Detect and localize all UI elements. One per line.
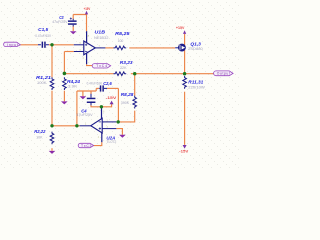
svg-text:C2,6: C2,6 (103, 81, 112, 86)
svg-text:TL072: TL072 (106, 140, 116, 144)
svg-text:100: 100 (118, 39, 124, 43)
svg-text:100K: 100K (37, 81, 47, 85)
svg-text:U1B: U1B (95, 30, 106, 35)
svg-text:C1,5: C1,5 (38, 27, 48, 32)
svg-text:R8,28: R8,28 (121, 92, 134, 97)
svg-text:0.47uF/63V: 0.47uF/63V (35, 34, 51, 38)
svg-text:220/10W: 220/10W (188, 85, 205, 89)
svg-text:TxC3: TxC3 (81, 144, 92, 148)
svg-text:-15V: -15V (179, 150, 189, 154)
svg-text:TxC4: TxC4 (96, 64, 107, 68)
svg-text:22K: 22K (120, 66, 127, 70)
svg-text:+15V: +15V (84, 7, 91, 11)
svg-text:+15V: +15V (176, 26, 185, 30)
svg-text:Output: Output (217, 72, 230, 76)
svg-text:3.9K: 3.9K (68, 84, 78, 88)
svg-text:2SD880: 2SD880 (188, 47, 203, 51)
svg-text:R5,25: R5,25 (115, 31, 130, 36)
svg-text:NE5532: NE5532 (94, 36, 109, 40)
svg-text:R4,24: R4,24 (67, 79, 81, 84)
svg-text:Q1,3: Q1,3 (190, 41, 201, 46)
svg-text:47uF/25V: 47uF/25V (52, 20, 68, 24)
svg-text:R1,21: R1,21 (36, 75, 52, 80)
svg-text:Input: Input (7, 43, 18, 47)
svg-text:R11,31: R11,31 (188, 79, 204, 84)
svg-text:390K: 390K (121, 101, 130, 105)
svg-text:R2,22: R2,22 (34, 129, 46, 134)
svg-text:10K: 10K (36, 135, 43, 139)
svg-text:0.47uF/63V: 0.47uF/63V (87, 81, 103, 85)
svg-text:-15V: -15V (106, 96, 118, 100)
svg-text:47uF/25V: 47uF/25V (76, 113, 93, 117)
svg-text:R3,23: R3,23 (120, 60, 133, 65)
